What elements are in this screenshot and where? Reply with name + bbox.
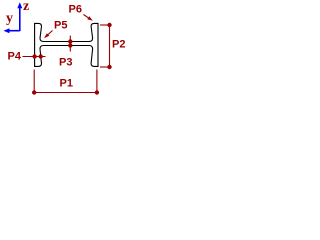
svg-text:P1: P1 — [60, 78, 73, 90]
svg-text:P5: P5 — [54, 20, 67, 32]
svg-text:P3: P3 — [59, 57, 72, 69]
svg-text:P2: P2 — [112, 39, 125, 51]
svg-text:y: y — [6, 11, 13, 26]
svg-text:P6: P6 — [69, 4, 82, 16]
svg-text:z: z — [23, 0, 29, 14]
svg-text:P4: P4 — [8, 51, 22, 63]
